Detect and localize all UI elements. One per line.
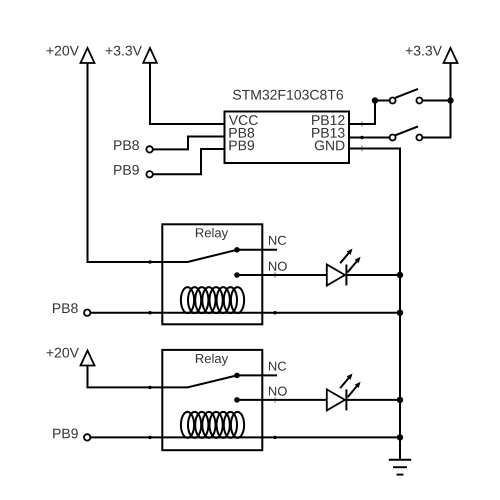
power +20V P4 label [47,348,79,358]
pin label GND [315,140,345,150]
terminal PB8 label (relay side) [53,303,78,313]
wire joint on coil K1 line left [148,311,151,314]
relay K1 label [196,228,228,240]
junction dot LED D1 / ground rail [397,272,403,278]
wire joint tick on GND line [361,146,362,152]
relay K1 coil loops [181,287,244,313]
pin label VCC [229,115,258,125]
wire relay K2 coil line [90,436,400,438]
relay K2 lever [188,375,238,387]
junction dot PB12/S1 [372,97,378,103]
LED D2 triangle [327,389,345,410]
wire joint tick on NO K2 line [274,397,275,403]
wire +3.3V P3 down to switch junction [450,63,452,101]
LED D2 arrow 1 [340,374,352,389]
switch S1 lever [395,89,418,98]
IC U1 STM32F103C8T6 body [225,112,350,164]
LED D1 arrow 2 [348,257,361,273]
pin label PB8 [229,128,254,138]
power +20V P1 label [47,46,79,56]
wire relay K2 NO to LED2 [237,399,327,401]
switch S2 lever [395,126,418,135]
relay K2 body [162,350,262,450]
terminal PB9 circle (MCU side) [146,171,152,177]
relay K2 NO contact dot [234,397,240,403]
terminal PB9 label (MCU side) [114,165,139,175]
relay K1 lever [188,250,238,262]
power +3.3V P3 label [406,46,442,56]
label NO relay K1 [269,262,287,271]
junction dot coil K2 / ground rail [397,434,403,440]
wire +20V P1 vertical to relay1 switch [88,63,188,262]
wire joint on coil K2 line right [273,436,276,439]
relay K2 NC contact dot [234,373,240,379]
relay K1 NO contact dot [234,272,240,278]
IC U1 title STM32F103C8T6 [233,90,343,100]
LED D2 cathode bar [345,389,347,410]
power +3.3V P2 label [106,46,142,56]
terminal PB8 circle (relay side) [84,310,90,316]
ground symbol [389,460,411,475]
LED D1 cathode bar [345,265,347,286]
terminal PB8 label (MCU side) [114,140,139,150]
wire PB9 terminal to PB9 pin [153,149,225,174]
power +20V P1 arrow [81,48,95,63]
wire LED D2 to ground rail [346,399,400,401]
wire S1 left stub [375,100,390,102]
wire PB12 pin up to switch S1 [349,101,375,125]
wire joint on +20V feed K1 [148,260,151,263]
wire joint on +20V feed K2 [148,386,151,389]
label NC relay K2 [269,362,286,371]
wire relay K1 NC stub [237,249,277,251]
wire +3.3V P2 to VCC pin [150,63,225,124]
LED D1 arrow 1 [340,249,352,264]
label NC relay K1 [269,236,286,245]
wire +20V P4 to relay2 switch [88,366,188,388]
switch S1 right contact [416,98,422,104]
switch S2 right contact [416,135,422,141]
switch S1 left contact [390,98,396,104]
relay K1 NC contact dot [234,247,240,253]
power +20V P4 arrow [81,351,95,366]
wire joint tick on PB12 line [361,121,362,127]
terminal PB9 circle (relay side) [84,434,90,440]
wire joint on coil K1 line right [273,311,276,314]
relay K1 body [162,224,262,324]
power +3.3V P3 arrow [444,48,458,63]
LED D1 triangle [327,265,345,286]
wire joint on PB13 line [360,136,363,139]
wire relay K1 coil line [90,312,400,314]
wire relay K2 NC stub [237,374,277,376]
LED D2 arrow 2 [348,382,361,398]
junction dot coil K1 / ground rail [397,310,403,316]
power +3.3V P2 arrow [143,48,157,63]
junction dot +3.3V rail [447,97,453,103]
relay K2 label [196,354,228,366]
wire joint tick on NO K1 line [274,272,275,278]
wire S2 right up to junction [422,101,450,138]
switch S2 left contact [390,135,396,141]
junction dot LED D2 / ground rail [397,397,403,403]
terminal PB8 circle (MCU side) [146,146,152,152]
wire joint on coil K2 line left [148,436,151,439]
pin label PB9 [229,140,254,150]
wire relay K1 NO to LED1 [237,274,327,276]
pin label PB13 [312,128,345,138]
wire PB13 pin to switch S2 [349,137,390,139]
label NO relay K2 [269,387,287,396]
terminal PB9 label (relay side) [53,429,78,439]
relay K2 coil loops [181,412,244,438]
wire S1 right to +3.3V rail [422,100,450,102]
pin label PB12 [312,115,344,125]
wire GND pin to ground rail [349,149,400,460]
wire LED D1 to ground rail [346,274,400,276]
wire PB8 terminal to PB8 pin [153,137,225,150]
